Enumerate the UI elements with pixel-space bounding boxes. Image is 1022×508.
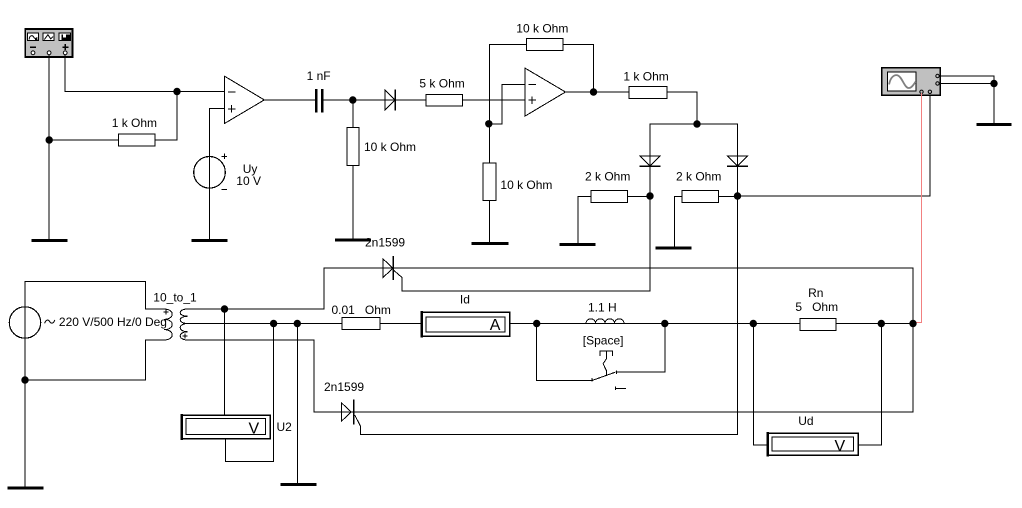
ammeter Id bbox=[421, 312, 510, 336]
inductor L1 1.1 H bbox=[586, 319, 624, 324]
svg-text:10 k Ohm: 10 k Ohm bbox=[364, 140, 416, 154]
svg-text:5 k Ohm: 5 k Ohm bbox=[419, 77, 464, 91]
wire R8 right to node H bbox=[719, 196, 738, 198]
node R (output node) bbox=[909, 320, 916, 327]
wire FG common terminal to ground bbox=[48, 55, 50, 240]
wire node M to ground bbox=[296, 324, 298, 485]
voltmeter U2 bbox=[181, 415, 270, 439]
ground under scope bbox=[978, 123, 1010, 126]
feedback resistor R4 10 k Ohm bbox=[527, 38, 564, 50]
capacitor C1 1 nF bbox=[315, 89, 324, 113]
wire SCR1 cathode to output node bbox=[393, 268, 913, 412]
ground under V1 bbox=[9, 486, 42, 489]
svg-text:Ud: Ud bbox=[798, 414, 813, 428]
wire A1 output to C1 bbox=[264, 99, 315, 101]
node N (switch left junction) bbox=[533, 320, 540, 327]
wire R1 left to FG common bbox=[49, 139, 118, 141]
wire R3 to op-amp A2 plus input bbox=[463, 99, 525, 101]
op-amp A2 bbox=[525, 68, 566, 116]
diode D2 (pointing down) bbox=[640, 156, 660, 166]
wire R1 right up to node A bbox=[155, 92, 177, 141]
ground under function generator bbox=[33, 239, 66, 242]
wire V1 vertical through source to ground bbox=[24, 282, 26, 488]
wire node C down to R2 bbox=[352, 100, 354, 128]
wire D2 to node G bbox=[649, 166, 651, 196]
resistor R10 Rn 5 Ohm bbox=[800, 319, 836, 331]
switch S1 [Space] bbox=[537, 324, 665, 390]
wire secondary center tap main line bbox=[188, 323, 342, 325]
wire Uy source vertical to op-amp A1 plus input bbox=[210, 109, 225, 241]
ground under R8 bbox=[657, 247, 690, 250]
svg-text:2 k Ohm: 2 k Ohm bbox=[585, 170, 630, 184]
svg-text:Rn: Rn bbox=[808, 286, 823, 300]
wire SCR1 gate from node G bbox=[394, 196, 650, 291]
svg-text:10 V: 10 V bbox=[236, 174, 261, 188]
svg-text:1 k Ohm: 1 k Ohm bbox=[112, 116, 157, 130]
ground under R7 bbox=[561, 243, 594, 246]
node B (FG common / R1 junction) bbox=[46, 136, 53, 143]
wire feedback right: R4 to A2 output bbox=[563, 44, 594, 92]
wire secondary bottom to SCR2 anode riser bbox=[188, 340, 315, 412]
node I (scope ground junction) bbox=[990, 80, 997, 87]
node F (diode rail junction) bbox=[693, 120, 700, 127]
thyristor SCR1 bbox=[383, 257, 393, 280]
function generator XFG1 bbox=[25, 29, 72, 57]
wire R7 right to node G bbox=[628, 196, 651, 198]
svg-text:0.01 Ohm: 0.01 Ohm bbox=[332, 303, 391, 317]
node A (FG output junction) bbox=[173, 88, 180, 95]
node C (C1 / R2 junction) bbox=[349, 96, 356, 103]
svg-text:5 Ohm: 5 Ohm bbox=[795, 300, 838, 314]
resistor R2 10 k Ohm vertical bbox=[347, 128, 359, 166]
wire diode rail horizontal bbox=[650, 123, 738, 125]
svg-text:2n1599: 2n1599 bbox=[324, 380, 364, 394]
diode D1 bbox=[385, 90, 395, 110]
transformer T1 10_to_1 bbox=[164, 309, 188, 340]
wire transformer primary bottom to node J bbox=[25, 340, 164, 380]
wire node H to oscilloscope B input bbox=[738, 94, 930, 197]
svg-text:1.1 H: 1.1 H bbox=[588, 301, 617, 315]
wire C1 to diode D1 bbox=[324, 99, 396, 101]
node E (A2 output) bbox=[590, 88, 597, 95]
resistor R8 2 k Ohm bbox=[682, 191, 719, 203]
wire voltmeter Ud right to node Q bbox=[858, 324, 881, 446]
svg-text:2 k Ohm: 2 k Ohm bbox=[676, 170, 721, 184]
node P (Ud left junction) bbox=[750, 320, 757, 327]
resistor R1 1 k Ohm bbox=[118, 134, 155, 146]
wire rail down to D3 bbox=[737, 124, 739, 166]
svg-text:10_to_1: 10_to_1 bbox=[153, 291, 197, 305]
oscilloscope XSC1 bbox=[882, 68, 941, 96]
svg-text:V: V bbox=[249, 421, 260, 438]
wire V1 top to transformer primary bbox=[25, 282, 164, 310]
wire R9 to ammeter Id bbox=[380, 323, 421, 325]
resistor R9 0.01 Ohm bbox=[342, 318, 380, 330]
svg-text:2n1599: 2n1599 bbox=[365, 236, 405, 250]
wire ammeter to main line bbox=[510, 323, 801, 325]
wire node P down to voltmeter Ud bbox=[753, 324, 767, 446]
wire FG plus terminal to op-amp A1 inverting input bbox=[65, 55, 224, 92]
svg-text:1 k Ohm: 1 k Ohm bbox=[623, 70, 668, 84]
svg-text:U2: U2 bbox=[277, 420, 293, 434]
resistor R3 5 k Ohm bbox=[426, 94, 463, 105]
wire scope A input (red) to output node bbox=[913, 94, 922, 323]
svg-text:10 k Ohm: 10 k Ohm bbox=[516, 22, 568, 36]
ground under Uy bbox=[193, 239, 226, 242]
wire node K down to voltmeter U2 bbox=[224, 309, 226, 415]
svg-text:V: V bbox=[835, 438, 846, 455]
wire SCR2 gate to node H vertical bbox=[355, 196, 738, 435]
wire Rn right to output node bbox=[836, 323, 913, 325]
resistor R6 1 k Ohm bbox=[629, 86, 667, 98]
node H (D3 / R8 junction) bbox=[734, 192, 741, 199]
ground under R5 bbox=[473, 242, 507, 245]
wire rail down to D2 bbox=[649, 124, 651, 166]
svg-text:Id: Id bbox=[460, 293, 470, 307]
svg-text:[Space]: [Space] bbox=[583, 334, 624, 348]
node Q (Ud right junction) bbox=[878, 320, 885, 327]
wire R7 left to ground bbox=[578, 197, 591, 245]
wire scope ground terminals to ground bbox=[939, 76, 994, 124]
svg-text:A: A bbox=[490, 317, 501, 334]
wire D3 to node H bbox=[737, 166, 739, 196]
svg-text:220 V/500 Hz/0 Deg: 220 V/500 Hz/0 Deg bbox=[59, 315, 167, 329]
wire R2 to ground bbox=[352, 166, 354, 240]
node G (D2 / R7 junction) bbox=[646, 192, 653, 199]
wire SCR2 cathode to output riser bbox=[354, 411, 913, 413]
op-amp A1 bbox=[225, 76, 265, 123]
wire SCR2 anode bbox=[314, 411, 354, 413]
resistor R7 2 k Ohm bbox=[591, 191, 628, 203]
node D (feedback / R5 junction) bbox=[485, 120, 492, 127]
wire R5 to ground bbox=[488, 201, 490, 244]
ground under R2 bbox=[337, 239, 370, 242]
wire feedback left: R4 to node D bbox=[490, 44, 527, 123]
diode D3 (pointing down) bbox=[728, 156, 748, 166]
wire R8 left to ground bbox=[675, 197, 683, 248]
wire D1 to R3 bbox=[395, 99, 426, 101]
source Uy 10 V bbox=[194, 157, 226, 189]
node O (switch right junction) bbox=[661, 320, 668, 327]
node J (V1 bottom junction) bbox=[21, 376, 28, 383]
ground under center tap bbox=[282, 483, 315, 486]
svg-text:1 nF: 1 nF bbox=[307, 69, 331, 83]
wire U2 bottom loop to node L bbox=[226, 324, 274, 462]
wire node D jog to A2 inverting input bbox=[489, 84, 525, 123]
wire transformer secondary top to SCR1 anode bbox=[324, 268, 393, 309]
AC source V1 220 V/500 Hz/0 Deg bbox=[9, 307, 54, 338]
node M (center tap ground junction) bbox=[294, 320, 301, 327]
svg-text:10 k Ohm: 10 k Ohm bbox=[500, 178, 552, 192]
wire secondary top bbox=[188, 308, 324, 310]
wire A2 output to R6 bbox=[566, 91, 630, 93]
node K (secondary top / U2 junction) bbox=[221, 305, 228, 312]
wire node D down to R5 bbox=[488, 124, 490, 163]
thyristor SCR2 bbox=[341, 400, 354, 424]
resistor R5 10 k Ohm vertical bbox=[483, 163, 496, 201]
wire R6 right down to node F bbox=[667, 92, 697, 124]
voltmeter Ud bbox=[767, 433, 858, 455]
node L (U2 return junction) bbox=[270, 320, 277, 327]
